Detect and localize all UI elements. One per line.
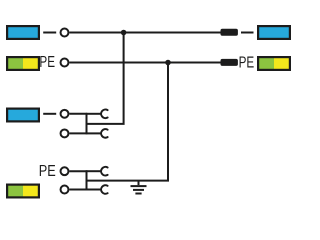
terminal screw circle T4 lower: [61, 186, 69, 194]
terminal screw circle T3 lower: [61, 129, 69, 137]
T1 right contact bar: [221, 29, 238, 36]
wire from T2 junction down to T4 bus: [87, 63, 168, 181]
T2 right contact bar: [221, 59, 238, 66]
socket contact T4 lower: [101, 185, 107, 194]
wire T4 lower stub to socket: [87, 189, 102, 191]
terminal T1 marker right (blue): [258, 26, 290, 39]
wire T1 horizontal: [69, 32, 221, 34]
terminal screw circle T1: [61, 29, 69, 37]
svg-text:PE: PE: [39, 163, 56, 180]
ground bar 1: [131, 185, 147, 187]
ground bar 2: [133, 189, 144, 191]
wire T3 lower stub to socket: [87, 132, 102, 134]
socket contact T3 upper: [101, 110, 107, 119]
wire T3 lower circle to bus bar: [69, 132, 87, 134]
terminal screw circle T4 upper: [61, 167, 69, 175]
svg-text:PE: PE: [239, 54, 255, 71]
wire T4 lower circle to bus bar: [69, 189, 87, 191]
socket contact T4 upper: [101, 167, 107, 176]
terminal T3 marker (blue): [7, 109, 39, 122]
socket contact T3 lower: [101, 129, 107, 138]
terminal T2 marker left (green/yellow PE): [7, 57, 39, 70]
wire from T1 junction down to T3 bus: [87, 33, 124, 124]
terminal screw circle T2: [61, 59, 69, 67]
T4 bus bar vertical: [86, 170, 88, 190]
dash T1 left: [43, 32, 56, 34]
wire T3 upper circle to bus bar: [69, 113, 87, 115]
ground bar 3: [135, 193, 141, 195]
svg-text:PE: PE: [39, 54, 55, 71]
wire T4 upper stub to socket: [87, 170, 102, 172]
junction node T1: [121, 30, 127, 36]
junction node T2: [165, 60, 171, 66]
terminal T4 marker (green/yellow PE): [7, 185, 39, 198]
ground symbol stem: [138, 181, 140, 185]
wire T4 upper circle to bus bar: [69, 170, 87, 172]
terminal T1 marker left (blue): [7, 26, 39, 39]
T3 bus bar vertical: [86, 113, 88, 134]
dash T3: [43, 113, 56, 115]
wire T3 upper stub to socket: [87, 113, 102, 115]
dash T1 right: [241, 32, 254, 34]
wire T2 horizontal: [69, 62, 221, 64]
terminal screw circle T3 upper: [61, 110, 69, 118]
terminal T2 marker right (green/yellow PE): [258, 57, 290, 70]
